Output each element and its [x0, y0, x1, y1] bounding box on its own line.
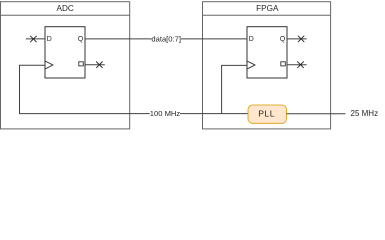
- svg-text:100 MHz: 100 MHz: [150, 109, 181, 118]
- svg-text:PLL: PLL: [258, 109, 275, 119]
- wire data[0:7] net: FF1 Q to FF2 D: [85, 38, 247, 40]
- wire FF2 Qn output stub (unconnected): [287, 64, 307, 66]
- block FPGA container: [203, 2, 331, 129]
- pin Qn square (FF1): [79, 62, 84, 66]
- svg-text:data[0:7]: data[0:7]: [151, 34, 181, 43]
- svg-text:25 MHz: 25 MHz: [351, 109, 379, 118]
- wire 25 MHz output from PLL: [287, 113, 346, 115]
- clock input triangle (FF2): [247, 61, 255, 69]
- svg-text:D: D: [47, 36, 52, 43]
- wire FF2 clock tap from 100 MHz net: [222, 65, 247, 113]
- open-end cross on FF1 D stub: [30, 36, 36, 42]
- svg-text:Q: Q: [280, 36, 286, 43]
- pin Qn square (FF2): [281, 62, 286, 66]
- wire FF1 D input stub (unconnected): [26, 38, 45, 40]
- open-end cross on FF1 Qn stub: [96, 62, 102, 68]
- clock input triangle (FF1): [45, 61, 53, 69]
- svg-text:ADC: ADC: [57, 4, 74, 13]
- block ADC container: [1, 2, 130, 129]
- open-end cross on FF2 Qn stub: [297, 62, 303, 68]
- svg-text:FPGA: FPGA: [256, 4, 279, 13]
- wire 100 MHz net: FF1 clock to PLL input: [20, 65, 249, 113]
- svg-text:Q: Q: [78, 36, 84, 43]
- wire FF2 Q output stub (unconnected): [287, 38, 307, 40]
- open-end cross on FF2 Q stub: [298, 36, 304, 42]
- flip-flop FF2 (FPGA) body: [247, 27, 287, 78]
- svg-text:D: D: [249, 36, 254, 43]
- flip-flop FF1 (ADC) body: [45, 27, 85, 78]
- PLL U1 block: [248, 105, 287, 123]
- wire FF1 Qn output stub (unconnected): [85, 64, 105, 66]
